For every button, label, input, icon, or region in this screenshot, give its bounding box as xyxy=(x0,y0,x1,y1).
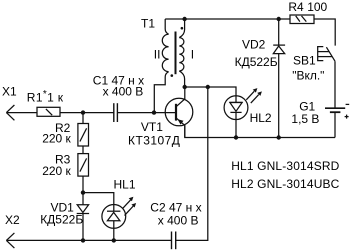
node junction C2 riser xyxy=(206,85,210,89)
svg-text:I: I xyxy=(191,48,194,62)
node junction T1 top xyxy=(182,17,186,21)
wire branch to HL1 xyxy=(83,193,114,212)
wire R1 to C1 xyxy=(60,112,114,114)
node junction VD2 bottom xyxy=(277,135,281,139)
node junction VD2 top xyxy=(277,17,281,21)
node junction R2 tap xyxy=(81,110,85,114)
node junction HL1 bottom xyxy=(112,238,116,242)
node junction HL2 bottom xyxy=(234,135,238,139)
resistor R1 xyxy=(37,107,60,116)
svg-text:КД522Б: КД522Б xyxy=(235,55,278,69)
connector X1 xyxy=(6,105,37,120)
svg-text:X1: X1 xyxy=(2,84,17,98)
node junction T1 winding II lead xyxy=(152,110,156,114)
wire C1 to VT1 base xyxy=(118,112,176,114)
diode VD1 xyxy=(77,193,89,241)
resistor R3 xyxy=(78,154,89,193)
switch SB1 xyxy=(318,47,335,108)
svg-text:х 400 В: х 400 В xyxy=(103,85,144,99)
wire C2 to collector line xyxy=(176,87,208,240)
svg-text:II: II xyxy=(154,48,161,62)
wire bottom bus (emitter rail) xyxy=(185,125,335,137)
svg-text:КТ3107Д: КТ3107Д xyxy=(128,133,180,147)
battery G1 xyxy=(325,104,349,137)
node junction VD1 bottom xyxy=(81,238,85,242)
svg-text:100: 100 xyxy=(307,0,327,14)
svg-text:х 400 В: х 400 В xyxy=(158,213,199,227)
polarity dot winding II xyxy=(171,74,174,77)
capacitor C2 xyxy=(172,232,176,250)
transformer T1 core xyxy=(175,32,177,75)
svg-text:КД522Б: КД522Б xyxy=(40,213,83,227)
connector X2 xyxy=(6,233,171,248)
wire top bus xyxy=(165,18,290,20)
svg-text:T1: T1 xyxy=(141,16,155,30)
transformer T1 winding I xyxy=(179,19,184,87)
node junction R3/VD1/HL1 xyxy=(81,190,85,194)
svg-text:C2 47 н х: C2 47 н х xyxy=(150,201,201,215)
LED HL1 xyxy=(102,197,136,241)
svg-text:220 к: 220 к xyxy=(42,131,71,145)
svg-text:"Вкл.": "Вкл." xyxy=(292,69,324,83)
svg-text:SB1: SB1 xyxy=(293,54,316,68)
LED HL2 xyxy=(224,88,262,137)
svg-text:HL2 GNL-3014UBC: HL2 GNL-3014UBC xyxy=(231,177,339,191)
wire R4 to SB1 xyxy=(314,19,335,46)
wire collector bus y87 xyxy=(185,87,236,102)
svg-text:R4: R4 xyxy=(288,0,304,14)
svg-text:HL2: HL2 xyxy=(250,111,272,125)
transistor VT1 xyxy=(165,87,193,138)
svg-text:220 к: 220 к xyxy=(42,164,71,178)
svg-text:X2: X2 xyxy=(5,213,20,227)
svg-text:VD2: VD2 xyxy=(242,37,266,51)
resistor R2 xyxy=(78,113,89,146)
svg-text:VT1: VT1 xyxy=(141,120,163,134)
svg-text:HL1 GNL-3014SRD: HL1 GNL-3014SRD xyxy=(231,159,339,173)
capacitor C1 xyxy=(114,103,118,122)
svg-text:HL1: HL1 xyxy=(114,177,136,191)
wire R2 to R3 xyxy=(82,146,84,154)
transformer T1 winding II xyxy=(154,19,168,113)
svg-text:R1*1 к: R1*1 к xyxy=(27,89,64,105)
diode VD2 xyxy=(273,19,285,138)
polarity dot winding I xyxy=(181,27,184,30)
svg-text:1,5 В: 1,5 В xyxy=(291,112,319,126)
resistor R4 xyxy=(290,15,314,24)
node junction collector xyxy=(183,85,187,89)
